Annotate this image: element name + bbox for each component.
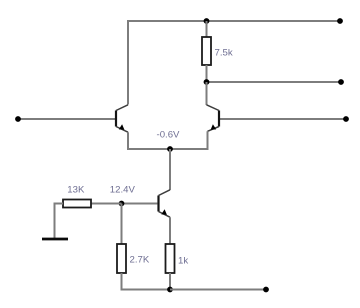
wire bottom rail [170, 289, 266, 291]
node bottom rail junction [167, 287, 173, 293]
ground [42, 238, 68, 241]
node base 12.4V [110, 185, 136, 207]
terminal post top right [337, 18, 343, 24]
transistor Q3 [159, 190, 171, 217]
wire 7.5k top lead [206, 21, 208, 37]
svg-text:12.4V: 12.4V [110, 185, 136, 196]
transistor Q2 [207, 105, 220, 132]
wire Q1 collector riser and top rail [128, 21, 340, 105]
wire second output rail [207, 81, 342, 83]
terminal post bottom right [263, 287, 269, 293]
wire Q2 collector riser [206, 82, 208, 105]
svg-text:7.5k: 7.5k [215, 48, 233, 59]
wire right input to Q2 base [220, 118, 346, 120]
resistor 2.7K [117, 244, 150, 273]
terminal post left input [15, 116, 21, 122]
node emitters -0.6V [157, 130, 181, 152]
transistor Q1 [116, 105, 128, 132]
resistor 13K [63, 185, 91, 208]
wire 13K left lead to ground [55, 204, 64, 239]
svg-text:1k: 1k [178, 256, 188, 267]
terminal post right input [343, 116, 349, 122]
wire 13K right lead [91, 203, 122, 205]
wire Q3 base lead [122, 203, 158, 205]
svg-text:13K: 13K [67, 185, 85, 196]
resistor 1k [166, 244, 189, 273]
wire Q3 emitter to 1k top [169, 217, 171, 244]
wire Q1 emitter drop [128, 132, 170, 149]
wire base node to 2.7K top [121, 204, 123, 245]
resistor 7.5k [202, 37, 233, 65]
node top rail junction [204, 18, 210, 24]
svg-text:-0.6V: -0.6V [157, 130, 181, 141]
wire emitters node to Q3 collector [169, 149, 171, 190]
terminal post second output [338, 79, 344, 85]
svg-text:2.7K: 2.7K [130, 255, 150, 266]
node 7.5k bottom junction [204, 79, 210, 85]
wire left input to Q1 base [18, 118, 115, 120]
wire 1k bottom lead [169, 273, 171, 290]
wire Q2 emitter drop [170, 131, 208, 149]
wire 7.5k bottom lead [206, 65, 208, 82]
wire 2.7K bottom to rail [122, 273, 171, 290]
